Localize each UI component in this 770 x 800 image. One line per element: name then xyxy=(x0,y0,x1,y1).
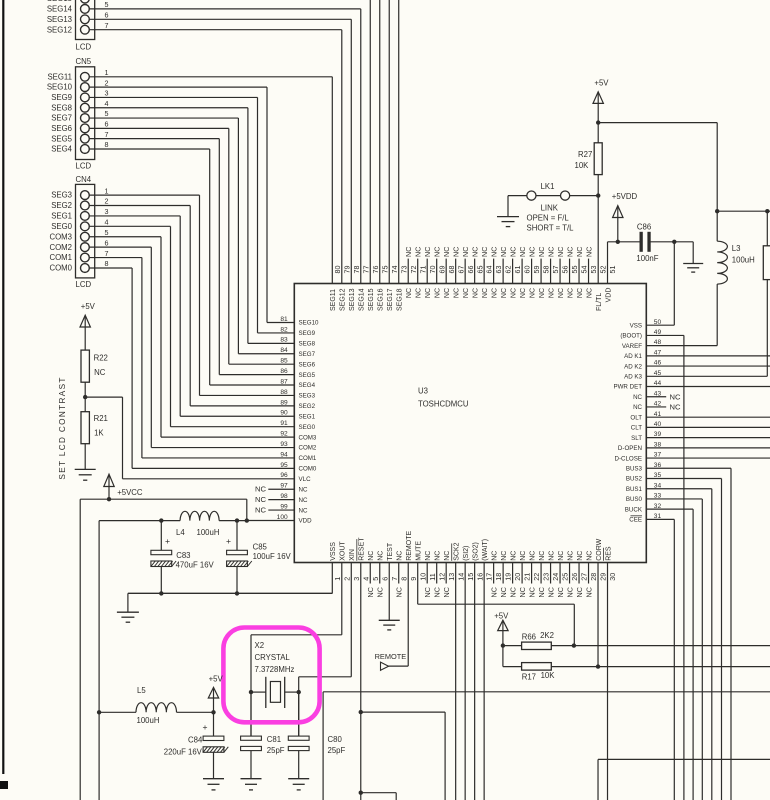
svg-text:C85: C85 xyxy=(253,543,268,552)
svg-text:NC: NC xyxy=(539,288,546,298)
svg-text:SEG14: SEG14 xyxy=(47,5,73,14)
svg-text:SEG7: SEG7 xyxy=(299,351,316,358)
svg-text:C80: C80 xyxy=(328,735,343,744)
svg-text:+5V: +5V xyxy=(594,79,609,88)
svg-text:NC: NC xyxy=(558,288,565,298)
svg-text:NC: NC xyxy=(423,247,432,257)
svg-text:6: 6 xyxy=(105,120,109,129)
svg-text:VDD: VDD xyxy=(605,288,612,303)
svg-text:NC: NC xyxy=(461,247,470,257)
svg-text:NC: NC xyxy=(482,288,489,298)
svg-text:SEG4: SEG4 xyxy=(299,382,316,389)
svg-text:NC: NC xyxy=(520,288,527,298)
svg-text:CN4: CN4 xyxy=(76,175,92,184)
svg-text:62: 62 xyxy=(504,266,513,274)
svg-text:NC: NC xyxy=(452,247,461,257)
svg-text:C83: C83 xyxy=(176,551,190,560)
svg-text:(WAIT): (WAIT) xyxy=(482,539,489,561)
svg-text:CN5: CN5 xyxy=(76,57,92,66)
svg-text:COM2: COM2 xyxy=(299,445,317,452)
svg-text:R66: R66 xyxy=(522,633,536,642)
svg-text:NC: NC xyxy=(577,551,584,561)
svg-text:NC: NC xyxy=(473,288,480,298)
svg-text:OPEN = F/L: OPEN = F/L xyxy=(527,213,570,222)
svg-text:5: 5 xyxy=(105,109,109,118)
svg-text:42: 42 xyxy=(654,401,662,408)
svg-text:NC: NC xyxy=(435,288,442,298)
svg-text:SEG11: SEG11 xyxy=(47,72,72,81)
svg-text:21: 21 xyxy=(523,573,532,581)
svg-text:SEG15: SEG15 xyxy=(368,288,375,311)
svg-text:BUS1: BUS1 xyxy=(626,486,643,493)
svg-text:53: 53 xyxy=(589,266,598,274)
svg-text:NC: NC xyxy=(511,551,518,561)
svg-text:RES: RES xyxy=(605,546,612,561)
svg-text:20: 20 xyxy=(513,573,522,581)
svg-text:SEG3: SEG3 xyxy=(299,393,316,400)
svg-text:NC: NC xyxy=(509,247,518,257)
svg-text:64: 64 xyxy=(485,266,494,274)
svg-text:L5: L5 xyxy=(137,686,146,695)
svg-text:NC: NC xyxy=(633,394,642,401)
svg-text:95: 95 xyxy=(280,462,288,469)
svg-text:NC: NC xyxy=(558,551,565,561)
svg-text:2: 2 xyxy=(105,197,109,206)
svg-text:1K: 1K xyxy=(94,429,104,438)
svg-text:+: + xyxy=(203,722,208,732)
svg-text:SLT: SLT xyxy=(631,435,642,442)
svg-text:91: 91 xyxy=(280,420,288,427)
svg-text:2K2: 2K2 xyxy=(540,631,554,640)
svg-text:65: 65 xyxy=(475,266,484,274)
svg-text:59: 59 xyxy=(532,266,541,274)
svg-text:51: 51 xyxy=(608,266,617,274)
svg-text:39: 39 xyxy=(654,431,662,438)
svg-text:+: + xyxy=(226,536,231,546)
svg-text:96: 96 xyxy=(280,472,288,479)
svg-text:NC: NC xyxy=(670,392,681,401)
svg-text:VDD: VDD xyxy=(299,518,313,525)
svg-text:25pF: 25pF xyxy=(328,746,346,755)
svg-text:34: 34 xyxy=(654,482,662,489)
svg-text:2: 2 xyxy=(342,577,351,581)
svg-text:94: 94 xyxy=(280,451,288,458)
svg-text:NC: NC xyxy=(404,247,413,257)
svg-text:5: 5 xyxy=(105,0,109,9)
svg-text:38: 38 xyxy=(654,441,662,448)
svg-text:CLT: CLT xyxy=(631,425,642,432)
svg-text:SEG12: SEG12 xyxy=(340,288,347,311)
svg-text:NC: NC xyxy=(499,587,508,597)
svg-text:NC: NC xyxy=(395,587,404,597)
svg-text:83: 83 xyxy=(280,337,288,344)
svg-text:NC: NC xyxy=(94,368,106,377)
svg-text:43: 43 xyxy=(654,390,662,397)
svg-text:7.3728MHz: 7.3728MHz xyxy=(255,665,295,674)
svg-text:16: 16 xyxy=(475,573,484,581)
svg-text:NC: NC xyxy=(527,587,536,597)
svg-text:NC: NC xyxy=(567,551,574,561)
svg-text:NC: NC xyxy=(444,551,451,561)
svg-text:L4: L4 xyxy=(176,528,185,537)
svg-text:NC: NC xyxy=(556,247,565,257)
svg-text:4: 4 xyxy=(361,577,370,581)
svg-text:11: 11 xyxy=(428,573,437,580)
svg-text:NC: NC xyxy=(416,288,423,298)
svg-text:NC: NC xyxy=(376,587,385,597)
svg-text:NC: NC xyxy=(299,507,308,514)
svg-text:10K: 10K xyxy=(541,671,556,680)
svg-text:SEG16: SEG16 xyxy=(378,288,385,311)
svg-text:7: 7 xyxy=(105,130,109,139)
svg-text:61: 61 xyxy=(513,266,522,274)
svg-text:NC: NC xyxy=(490,247,499,257)
svg-text:54: 54 xyxy=(580,266,589,274)
svg-text:NC: NC xyxy=(633,404,642,411)
svg-text:82: 82 xyxy=(280,326,288,333)
svg-text:5: 5 xyxy=(371,577,380,581)
svg-text:NC: NC xyxy=(492,288,499,298)
svg-text:SEG2: SEG2 xyxy=(299,403,316,410)
svg-text:SEG15: SEG15 xyxy=(47,0,73,3)
svg-text:8: 8 xyxy=(105,259,109,268)
svg-text:SEG0: SEG0 xyxy=(299,424,316,431)
svg-text:D-OPEN: D-OPEN xyxy=(618,445,642,452)
svg-text:BUS2: BUS2 xyxy=(626,476,643,483)
svg-text:33: 33 xyxy=(654,493,662,500)
svg-text:71: 71 xyxy=(418,266,427,274)
svg-text:70: 70 xyxy=(428,266,437,274)
svg-text:25: 25 xyxy=(561,573,570,581)
svg-text:2: 2 xyxy=(105,78,109,87)
svg-text:NC: NC xyxy=(548,288,555,298)
svg-text:SEG10: SEG10 xyxy=(47,83,73,92)
svg-text:84: 84 xyxy=(280,347,288,354)
svg-text:C86: C86 xyxy=(637,223,651,232)
svg-text:+5V: +5V xyxy=(494,611,509,620)
svg-text:COM0: COM0 xyxy=(299,466,317,473)
svg-text:COM3: COM3 xyxy=(49,232,72,241)
svg-text:6: 6 xyxy=(105,11,109,20)
svg-text:100uH: 100uH xyxy=(137,716,160,725)
svg-text:SEG9: SEG9 xyxy=(51,93,72,102)
svg-text:TOSHCDMCU: TOSHCDMCU xyxy=(418,400,469,409)
svg-text:13: 13 xyxy=(447,573,456,581)
svg-text:87: 87 xyxy=(280,378,288,385)
svg-text:AD K2: AD K2 xyxy=(624,363,642,370)
svg-text:FL/TL: FL/TL xyxy=(596,293,603,311)
svg-text:98: 98 xyxy=(280,493,288,500)
svg-text:NC: NC xyxy=(586,288,593,298)
svg-text:35: 35 xyxy=(654,472,662,479)
svg-text:28: 28 xyxy=(589,573,598,581)
svg-text:NC: NC xyxy=(299,486,308,493)
svg-text:100nF: 100nF xyxy=(636,254,658,263)
svg-text:49: 49 xyxy=(654,329,662,336)
svg-text:9: 9 xyxy=(409,577,418,581)
svg-text:+: + xyxy=(165,536,170,546)
svg-text:NC: NC xyxy=(577,288,584,298)
svg-text:(BOOT): (BOOT) xyxy=(620,333,642,340)
svg-text:(SO2): (SO2) xyxy=(473,542,480,561)
svg-text:SEG18: SEG18 xyxy=(397,288,404,311)
svg-text:REMOTE: REMOTE xyxy=(375,652,407,661)
svg-text:93: 93 xyxy=(280,441,288,448)
svg-text:SEG6: SEG6 xyxy=(51,124,72,133)
svg-text:NC: NC xyxy=(539,551,546,561)
svg-text:VLC: VLC xyxy=(299,476,312,483)
svg-text:67: 67 xyxy=(456,266,465,274)
svg-text:40: 40 xyxy=(654,421,662,428)
svg-text:NC: NC xyxy=(509,587,518,597)
svg-text:77: 77 xyxy=(361,266,370,274)
svg-text:LK1: LK1 xyxy=(541,182,555,191)
svg-text:68: 68 xyxy=(447,266,456,274)
svg-text:69: 69 xyxy=(437,266,446,274)
svg-text:4: 4 xyxy=(105,218,109,227)
svg-text:99: 99 xyxy=(280,503,288,510)
svg-text:NC: NC xyxy=(575,247,584,257)
svg-text:86: 86 xyxy=(280,368,288,375)
svg-text:7: 7 xyxy=(105,249,109,258)
svg-text:90: 90 xyxy=(280,410,288,417)
svg-text:7: 7 xyxy=(105,21,109,30)
svg-text:XOUT: XOUT xyxy=(340,541,347,561)
svg-text:SET LCD CONTRAST: SET LCD CONTRAST xyxy=(58,376,67,479)
svg-text:1: 1 xyxy=(105,68,109,77)
svg-text:VAREF: VAREF xyxy=(622,343,642,350)
svg-text:R27: R27 xyxy=(578,150,592,159)
svg-text:NC: NC xyxy=(584,587,593,597)
svg-text:8: 8 xyxy=(399,577,408,581)
svg-text:50: 50 xyxy=(654,319,662,326)
svg-text:100uH: 100uH xyxy=(732,256,755,265)
svg-text:24: 24 xyxy=(551,573,560,581)
svg-text:27: 27 xyxy=(580,573,589,581)
svg-text:NC: NC xyxy=(414,247,423,257)
svg-text:NC: NC xyxy=(366,587,375,597)
svg-text:1: 1 xyxy=(105,186,109,195)
svg-text:55: 55 xyxy=(570,266,579,274)
svg-text:NC: NC xyxy=(529,551,536,561)
svg-text:89: 89 xyxy=(280,399,288,406)
svg-text:SEG0: SEG0 xyxy=(51,222,72,231)
svg-text:CEE: CEE xyxy=(629,517,642,524)
svg-text:10K: 10K xyxy=(575,161,590,170)
svg-text:C81: C81 xyxy=(267,735,281,744)
svg-text:81: 81 xyxy=(280,316,288,323)
svg-text:PWR DET: PWR DET xyxy=(613,384,642,391)
svg-text:10: 10 xyxy=(418,573,427,581)
svg-text:3: 3 xyxy=(105,207,109,216)
svg-text:NC: NC xyxy=(471,247,480,257)
svg-text:NC: NC xyxy=(518,247,527,257)
svg-text:BUS0: BUS0 xyxy=(626,496,643,503)
svg-text:73: 73 xyxy=(399,266,408,274)
svg-text:NC: NC xyxy=(454,288,461,298)
svg-text:19: 19 xyxy=(504,573,513,581)
svg-text:14: 14 xyxy=(456,573,465,581)
svg-text:60: 60 xyxy=(523,266,532,274)
svg-text:22: 22 xyxy=(532,573,541,581)
svg-text:30: 30 xyxy=(608,573,617,581)
svg-text:D-CLOSE: D-CLOSE xyxy=(614,455,642,462)
svg-text:SEG2: SEG2 xyxy=(51,201,72,210)
svg-text:AD K1: AD K1 xyxy=(624,353,642,360)
svg-text:NC: NC xyxy=(406,288,413,298)
svg-text:NC: NC xyxy=(425,551,432,561)
svg-text:COM1: COM1 xyxy=(49,253,72,262)
svg-text:46: 46 xyxy=(654,360,662,367)
svg-text:L3: L3 xyxy=(732,244,741,253)
svg-text:17: 17 xyxy=(485,573,494,581)
svg-text:88: 88 xyxy=(280,389,288,396)
svg-text:1: 1 xyxy=(333,577,342,581)
svg-text:U3: U3 xyxy=(418,387,428,396)
svg-text:C84: C84 xyxy=(188,736,203,745)
svg-text:REMOTE: REMOTE xyxy=(406,531,413,561)
svg-text:SEG7: SEG7 xyxy=(51,114,72,123)
svg-text:100: 100 xyxy=(277,514,288,521)
svg-text:41: 41 xyxy=(654,411,662,418)
svg-text:NC: NC xyxy=(537,587,546,597)
svg-text:CRYSTAL: CRYSTAL xyxy=(255,653,291,662)
svg-text:63: 63 xyxy=(494,266,503,274)
svg-text:R21: R21 xyxy=(94,414,108,423)
svg-text:3: 3 xyxy=(105,89,109,98)
svg-text:97: 97 xyxy=(280,483,288,490)
svg-text:SEG8: SEG8 xyxy=(51,103,72,112)
svg-text:SEG12: SEG12 xyxy=(47,25,72,34)
svg-text:36: 36 xyxy=(654,462,662,469)
svg-text:(SI2): (SI2) xyxy=(463,546,470,561)
svg-text:NC: NC xyxy=(527,247,536,257)
svg-text:+5VCC: +5VCC xyxy=(117,488,143,497)
svg-text:LINK: LINK xyxy=(541,203,559,212)
svg-text:SEG13: SEG13 xyxy=(47,15,72,24)
svg-text:NC: NC xyxy=(520,551,527,561)
svg-text:VSS: VSS xyxy=(630,322,642,329)
svg-text:3: 3 xyxy=(352,577,361,581)
svg-text:NC: NC xyxy=(442,587,451,597)
svg-text:SEG9: SEG9 xyxy=(299,330,316,337)
svg-text:57: 57 xyxy=(551,266,560,274)
svg-text:TEST: TEST xyxy=(387,542,394,561)
svg-text:NC: NC xyxy=(556,587,565,597)
svg-text:BUS3: BUS3 xyxy=(626,465,643,472)
svg-text:52: 52 xyxy=(599,266,608,274)
svg-text:NC: NC xyxy=(518,587,527,597)
svg-text:25pF: 25pF xyxy=(267,746,285,755)
svg-text:SEG14: SEG14 xyxy=(359,288,366,311)
svg-text:SEG5: SEG5 xyxy=(299,372,316,379)
svg-text:4: 4 xyxy=(105,99,109,108)
svg-text:NC: NC xyxy=(463,288,470,298)
svg-text:SEG3: SEG3 xyxy=(51,191,72,200)
svg-text:92: 92 xyxy=(280,431,288,438)
svg-text:SEG5: SEG5 xyxy=(51,134,72,143)
svg-text:NC: NC xyxy=(584,247,593,257)
svg-text:100uF 16V: 100uF 16V xyxy=(253,552,292,561)
svg-text:8: 8 xyxy=(105,140,109,149)
svg-text:7: 7 xyxy=(390,577,399,581)
svg-text:NC: NC xyxy=(537,247,546,257)
svg-text:NC: NC xyxy=(480,247,489,257)
svg-text:RESET: RESET xyxy=(359,537,366,561)
svg-text:BUCK: BUCK xyxy=(625,506,643,513)
svg-text:SEG13: SEG13 xyxy=(349,288,356,311)
svg-text:NC: NC xyxy=(433,247,442,257)
svg-text:MUTE: MUTE xyxy=(416,541,423,561)
svg-text:X2: X2 xyxy=(255,641,265,650)
svg-text:NC: NC xyxy=(423,587,432,597)
svg-text:NC: NC xyxy=(378,551,385,561)
svg-text:47: 47 xyxy=(654,349,662,356)
svg-text:26: 26 xyxy=(570,573,579,581)
svg-text:79: 79 xyxy=(342,266,351,274)
svg-text:COM3: COM3 xyxy=(299,434,317,441)
svg-text:29: 29 xyxy=(599,573,608,581)
svg-text:NC: NC xyxy=(567,288,574,298)
svg-text:NC: NC xyxy=(546,587,555,597)
svg-text:6: 6 xyxy=(105,238,109,247)
svg-text:SEG11: SEG11 xyxy=(330,289,337,311)
svg-text:NC: NC xyxy=(255,495,266,504)
svg-text:75: 75 xyxy=(380,266,389,274)
svg-text:NC: NC xyxy=(565,587,574,597)
svg-text:37: 37 xyxy=(654,452,662,459)
svg-text:NC: NC xyxy=(442,247,451,257)
svg-text:SEG17: SEG17 xyxy=(387,288,394,311)
svg-text:NC: NC xyxy=(575,587,584,597)
svg-text:32: 32 xyxy=(654,503,662,510)
svg-text:SHORT = T/L: SHORT = T/L xyxy=(527,224,575,233)
svg-text:56: 56 xyxy=(561,266,570,274)
svg-text:6: 6 xyxy=(380,577,389,581)
svg-text:220uF 16V: 220uF 16V xyxy=(164,748,203,757)
svg-text:80: 80 xyxy=(333,266,342,274)
svg-text:SEG1: SEG1 xyxy=(51,212,72,221)
svg-text:NC: NC xyxy=(435,551,442,561)
svg-text:LCD: LCD xyxy=(76,280,92,289)
svg-text:NC: NC xyxy=(548,551,555,561)
svg-text:44: 44 xyxy=(654,380,662,387)
svg-text:+5V: +5V xyxy=(209,675,224,684)
svg-text:OLT: OLT xyxy=(630,414,642,421)
svg-text:NC: NC xyxy=(511,288,518,298)
svg-text:NC: NC xyxy=(501,288,508,298)
svg-text:76: 76 xyxy=(371,266,380,274)
svg-text:NC: NC xyxy=(546,247,555,257)
svg-text:SEG10: SEG10 xyxy=(299,320,320,327)
svg-text:NC: NC xyxy=(529,288,536,298)
svg-text:VSSS: VSSS xyxy=(330,542,337,561)
svg-text:470uF 16V: 470uF 16V xyxy=(176,561,215,570)
svg-text:5: 5 xyxy=(105,228,109,237)
svg-text:+5VDD: +5VDD xyxy=(612,192,638,201)
svg-text:COM0: COM0 xyxy=(49,264,72,273)
svg-text:R22: R22 xyxy=(94,353,108,362)
svg-text:15: 15 xyxy=(466,573,475,581)
svg-text:12: 12 xyxy=(437,573,446,581)
svg-text:NC: NC xyxy=(670,403,681,412)
svg-text:SEG4: SEG4 xyxy=(51,145,72,154)
svg-text:23: 23 xyxy=(542,573,551,581)
svg-text:NC: NC xyxy=(565,247,574,257)
svg-text:100uH: 100uH xyxy=(197,528,220,537)
svg-text:COM2: COM2 xyxy=(49,243,72,252)
svg-text:NC: NC xyxy=(255,485,266,494)
